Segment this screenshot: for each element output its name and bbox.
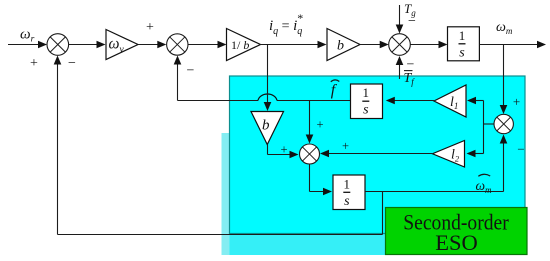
svg-text:+: + bbox=[342, 139, 349, 153]
node omega_r input label bbox=[20, 27, 35, 45]
wire long feedback bottom bbox=[58, 234, 383, 236]
integrator block 1/s main bbox=[448, 27, 480, 61]
minus sign above That_f bbox=[407, 57, 415, 72]
green box Second-order ESO bbox=[386, 208, 528, 256]
svg-text:1: 1 bbox=[363, 85, 370, 100]
gain block b bbox=[327, 29, 360, 61]
wire feedback up into junction 1 bbox=[54, 56, 62, 235]
plus sign b2 into junction bbox=[280, 142, 287, 156]
svg-text:s: s bbox=[363, 103, 369, 118]
svg-text:b: b bbox=[337, 39, 344, 54]
wire junction 4 to splitter bbox=[484, 101, 495, 154]
label b in gain bbox=[337, 39, 344, 54]
svg-text:1/ b: 1/ b bbox=[231, 38, 249, 52]
gain block l1 bbox=[434, 85, 466, 117]
minus sign at junction 2 bbox=[187, 63, 195, 78]
wire That_f into junction 3 bbox=[396, 56, 404, 79]
label That_f bbox=[404, 71, 416, 87]
plus sign f-hat into junction bbox=[316, 118, 323, 132]
svg-text:b: b bbox=[262, 118, 270, 134]
summing junction 1 bbox=[47, 34, 69, 56]
svg-text:+: + bbox=[280, 142, 287, 156]
summing junction 4 ESO right bbox=[494, 114, 513, 133]
label f-hat bbox=[331, 80, 340, 99]
wire output drop into junction 4 bbox=[500, 45, 508, 115]
wire junction 1 to speed controller bbox=[69, 41, 106, 49]
label b in ESO gain bbox=[262, 118, 270, 134]
svg-text:iq = i*q: iq = i*q bbox=[269, 11, 303, 37]
wire junction 2 to gain 1/b bbox=[188, 41, 227, 49]
plus sign l2 into junction bbox=[342, 139, 349, 153]
wire feedback tap from omega_m hat line bbox=[382, 192, 384, 235]
svg-text:+: + bbox=[30, 56, 38, 71]
svg-text:+: + bbox=[316, 118, 323, 132]
wire integrator to output bbox=[479, 41, 546, 49]
svg-text:+: + bbox=[146, 20, 154, 35]
summing junction 2 bbox=[167, 34, 188, 55]
svg-text:s: s bbox=[459, 45, 465, 60]
gain block l2 bbox=[433, 141, 465, 168]
label 1/b bbox=[231, 38, 249, 52]
shaded region ESO (aqua rectangle) bbox=[230, 76, 526, 234]
wire b2 output to middle junction bbox=[268, 145, 299, 159]
wire f-hat horizontal left segment bbox=[178, 100, 259, 102]
svg-text:−: − bbox=[408, 14, 416, 29]
gain block 1/b bbox=[227, 29, 261, 61]
wire omega_m hat line bbox=[365, 191, 504, 193]
svg-text:1: 1 bbox=[344, 176, 351, 191]
minus sign at junction 1 bbox=[68, 56, 76, 71]
wire i_q drop into gain b2 bbox=[264, 45, 272, 112]
label T_g bbox=[404, 1, 416, 18]
wire f-hat horizontal right segment bbox=[277, 100, 351, 102]
summing junction middle ESO bbox=[300, 144, 320, 164]
wire l1 to integrator 3 bbox=[386, 97, 434, 105]
label l1 bbox=[450, 95, 458, 111]
svg-text:−: − bbox=[187, 63, 195, 78]
wire 1/b to gain b bbox=[259, 41, 327, 49]
wire controller to summing junction 2 bbox=[138, 41, 166, 49]
label i_q = i_q* bbox=[269, 11, 303, 37]
integrator block 1/s ESO upper bbox=[351, 84, 383, 119]
wire junction 3 to integrator bbox=[411, 41, 448, 49]
summing junction 3 bbox=[389, 34, 411, 56]
shaded region (medium cyan bottom strip) bbox=[230, 133, 386, 255]
wire splitter to gain l2 bbox=[467, 150, 484, 158]
wire f-hat feedback up into junction 2 bbox=[174, 56, 182, 101]
wire omega_m hat up into junction 4 bbox=[500, 135, 508, 192]
minus sign below T_g bbox=[408, 14, 416, 29]
svg-text:s: s bbox=[344, 194, 350, 209]
shaded region (light cyan, lower-left) bbox=[222, 133, 386, 255]
wire middle junction to integrator 2 bbox=[310, 164, 333, 195]
svg-text:−: − bbox=[517, 142, 524, 157]
svg-text:1: 1 bbox=[459, 28, 466, 43]
plus sign at junction 1 bbox=[30, 56, 38, 71]
svg-text:ESO: ESO bbox=[435, 230, 478, 255]
plus sign at junction 4 top bbox=[513, 94, 520, 109]
svg-text:−: − bbox=[68, 56, 76, 71]
crossover hop on f-hat wire bbox=[258, 94, 277, 101]
integrator block 1/s ESO lower bbox=[333, 175, 365, 210]
plus sign at junction 2 bbox=[146, 20, 154, 35]
op-amp speed controller omega_v bbox=[106, 30, 138, 60]
label omega_m output bbox=[496, 20, 513, 36]
svg-text:+: + bbox=[513, 94, 520, 109]
wire f-hat branch down to middle junction bbox=[306, 101, 314, 144]
gain block b in ESO bbox=[251, 112, 284, 145]
label omega_v bbox=[109, 36, 125, 56]
svg-text:ωm: ωm bbox=[496, 20, 513, 36]
label omega_m hat bbox=[476, 174, 493, 195]
wire splitter to gain l1 bbox=[467, 97, 484, 105]
wire input to summing junction 1 bbox=[8, 41, 47, 49]
wire T_g into junction 3 bbox=[396, 5, 404, 34]
wire b to summing junction 3 bbox=[360, 41, 389, 49]
svg-text:Tf: Tf bbox=[404, 71, 416, 87]
wire l2 to middle junction bbox=[320, 150, 432, 158]
label l2 bbox=[451, 148, 460, 164]
minus sign at junction 4 bottom bbox=[517, 142, 524, 157]
svg-text:ωr: ωr bbox=[20, 27, 35, 45]
